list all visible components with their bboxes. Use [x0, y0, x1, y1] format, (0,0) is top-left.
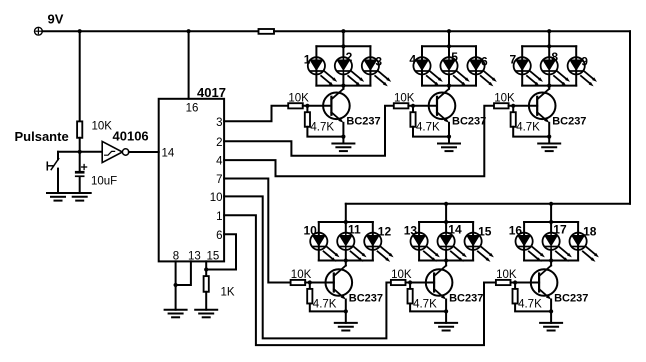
pin 6 label	[216, 230, 222, 242]
label 9V	[48, 12, 64, 27]
svg-text:10K: 10K	[92, 121, 113, 133]
resistor 10K base Q2	[394, 92, 415, 108]
resistor R1 10K	[77, 121, 112, 138]
svg-text:2: 2	[346, 50, 353, 64]
svg-text:BC237: BC237	[552, 116, 586, 128]
resistor 10K base Q4	[291, 269, 312, 285]
pin 2 label	[216, 137, 222, 149]
svg-text:40106: 40106	[113, 129, 149, 144]
transistor Q6 BC237	[531, 266, 589, 305]
svg-text:6: 6	[481, 54, 488, 68]
svg-text:10K: 10K	[494, 92, 515, 104]
wire 4.7K to emitter Q2	[413, 127, 451, 139]
junction rail / R1	[78, 29, 82, 33]
pin 16 label	[186, 102, 199, 114]
svg-text:BC237: BC237	[554, 292, 588, 304]
wire base node Q3	[509, 104, 538, 108]
ground Q5 emitter	[435, 323, 457, 331]
wire rail to upper LED group	[448, 31, 450, 46]
IC U1 4017 body	[159, 99, 224, 262]
svg-text:BC237: BC237	[349, 292, 383, 304]
wire LED group bus for LEDs 4-6	[422, 44, 476, 87]
resistor 1K reset pulldown	[204, 276, 235, 298]
svg-text:11: 11	[348, 223, 361, 237]
wire emitter Q4 to ground	[345, 300, 347, 323]
svg-text:10K: 10K	[391, 269, 412, 281]
transistor Q2 BC237	[429, 89, 487, 128]
wire 4.7K to emitter Q1	[307, 127, 345, 139]
svg-text:4.7K: 4.7K	[518, 298, 542, 310]
wire rail to R1	[79, 31, 81, 121]
resistor 4.7K base-emitter Q1	[305, 108, 335, 133]
svg-text:10K: 10K	[291, 269, 312, 281]
ground Q3 emitter	[538, 144, 560, 152]
junction lower rail / LED group	[444, 202, 448, 206]
transistor Q3 BC237	[529, 89, 587, 128]
wire input node to C1	[79, 152, 81, 171]
ground 4017 Vss	[165, 310, 187, 318]
svg-text:10K: 10K	[288, 92, 309, 104]
svg-text:5: 5	[451, 50, 458, 64]
switch S1 pushbutton	[47, 152, 58, 193]
wire pin 13 down	[176, 261, 191, 285]
wire collector Q6 to LED bus	[550, 261, 552, 266]
wire collector Q1 to LED bus	[342, 86, 344, 89]
svg-text:Pulsante: Pulsante	[15, 129, 69, 144]
pin 4 label	[216, 156, 223, 168]
svg-text:16: 16	[186, 102, 199, 114]
LED 14	[438, 223, 467, 262]
svg-text:10K: 10K	[394, 92, 415, 104]
junction rail / LED group	[447, 29, 451, 33]
wire pin 7 to driver Q4	[224, 179, 291, 283]
junction pins 8-13	[174, 283, 178, 287]
transistor Q4 BC237	[326, 266, 384, 305]
wire base node Q6	[511, 280, 540, 284]
wire base node Q1	[303, 104, 332, 108]
wire collector Q2 to LED bus	[448, 86, 450, 89]
wire lower rail to LED group	[345, 204, 347, 222]
wire pin 3 to driver Q1	[224, 106, 288, 122]
svg-text:9: 9	[581, 54, 588, 68]
wire 9V rail left segment	[42, 30, 258, 32]
wire base node Q4	[305, 280, 334, 284]
ground Q2 emitter	[438, 144, 460, 152]
wire base node Q2	[408, 104, 437, 108]
wire 4.7K to emitter Q5	[410, 304, 448, 314]
svg-text:3: 3	[375, 54, 382, 68]
LED 12	[364, 225, 393, 262]
transistor Q1 BC237	[323, 89, 381, 128]
svg-text:4.7K: 4.7K	[310, 122, 334, 134]
wire 4.7K to emitter Q3	[513, 127, 551, 139]
wire LED group bus for LEDs 1-3	[316, 44, 370, 87]
wire C1 to ground	[79, 177, 81, 193]
wire lower rail to LED group	[445, 204, 447, 222]
svg-text:4: 4	[216, 156, 223, 168]
wire lower rail to LED group	[550, 204, 552, 222]
svg-text:3: 3	[216, 117, 222, 129]
LED 7	[510, 52, 543, 86]
svg-text:2: 2	[216, 137, 222, 149]
wire LED group bus for LEDs 13-15	[419, 220, 473, 263]
transistor Q5 BC237	[426, 266, 484, 305]
ground switch	[47, 193, 69, 201]
LED 17	[543, 223, 572, 262]
svg-text:17: 17	[553, 223, 567, 237]
LED 9	[568, 54, 597, 86]
wire lower 9V rail	[346, 203, 630, 205]
LED 5	[440, 50, 469, 86]
wire rail to upper LED group	[342, 31, 344, 46]
resistor 4.7K base-emitter Q6	[513, 285, 543, 310]
pin 3 label	[216, 117, 222, 129]
resistor series in 9V rail	[259, 29, 275, 34]
wire LED group bus for LEDs 7-9	[522, 44, 576, 87]
LED 8	[541, 50, 570, 86]
wire pin 1 to driver Q6	[224, 215, 496, 345]
wire inverter output to pin 14	[129, 151, 159, 153]
svg-text:1: 1	[304, 52, 311, 66]
wire base node Q5	[406, 280, 435, 284]
svg-text:15: 15	[478, 225, 492, 239]
wire pin 15 down	[205, 261, 207, 276]
junction input node	[78, 150, 82, 154]
LED 18	[570, 225, 599, 262]
svg-text:13: 13	[404, 224, 418, 238]
svg-text:6: 6	[216, 230, 222, 242]
LED 16	[509, 224, 545, 262]
wire 4.7K to emitter Q4	[310, 304, 348, 314]
junction lower rail / LED group	[549, 202, 553, 206]
resistor 10K base Q6	[496, 269, 517, 285]
svg-text:10: 10	[210, 192, 223, 204]
pin 14 label	[162, 148, 175, 160]
label 40106	[113, 129, 149, 144]
junction rail / 4017 Vdd	[187, 29, 191, 33]
wire LED group bus for LEDs 16-18	[524, 220, 578, 263]
wire 4.7K to emitter Q6	[515, 304, 553, 314]
svg-text:BC237: BC237	[449, 292, 483, 304]
resistor 4.7K base-emitter Q2	[410, 108, 440, 133]
svg-text:4.7K: 4.7K	[516, 122, 540, 134]
label 4017	[197, 85, 226, 100]
svg-text:8: 8	[551, 50, 558, 64]
LED 6	[467, 54, 496, 86]
wire emitter Q3 to ground	[548, 123, 550, 144]
svg-text:4.7K: 4.7K	[413, 298, 437, 310]
wire right edge down to lower rail	[629, 31, 631, 204]
capacitor C1 10uF polarized	[75, 165, 117, 188]
svg-text:7: 7	[216, 174, 222, 186]
svg-text:16: 16	[509, 224, 523, 238]
wire emitter Q2 to ground	[448, 123, 450, 144]
pin 8 label	[173, 251, 179, 263]
LED 11	[337, 223, 366, 262]
pin 13 label	[188, 251, 201, 263]
wire emitter Q6 to ground	[550, 300, 552, 323]
svg-text:BC237: BC237	[346, 116, 380, 128]
LED 10	[303, 224, 339, 262]
wire pin 2 to driver Q2	[224, 106, 394, 156]
svg-text:4: 4	[409, 52, 416, 66]
LED 13	[404, 224, 440, 262]
pin 10 label	[210, 192, 223, 204]
wire 9V rail right segment	[274, 30, 630, 32]
svg-text:4.7K: 4.7K	[416, 122, 440, 134]
wire 1K to ground	[205, 292, 207, 310]
ground Q6 emitter	[540, 323, 562, 331]
wire input node to inverter	[80, 151, 103, 153]
pin 15 label	[207, 251, 220, 263]
svg-text:7: 7	[510, 52, 517, 66]
ground Q1 emitter	[332, 144, 354, 152]
svg-text:14: 14	[162, 148, 175, 160]
ground 1K	[195, 310, 217, 318]
svg-text:15: 15	[207, 251, 220, 263]
wire pin 4 to driver Q3	[224, 106, 494, 176]
ground Q4 emitter	[335, 323, 357, 331]
wire rail to pin 16	[188, 31, 190, 99]
svg-text:BC237: BC237	[452, 116, 486, 128]
resistor 4.7K base-emitter Q5	[408, 285, 438, 310]
svg-text:18: 18	[583, 225, 597, 239]
ground C1	[69, 193, 91, 201]
wire collector Q5 to LED bus	[445, 261, 447, 266]
svg-text:1: 1	[216, 211, 222, 223]
junction pin 15 / pin 6	[204, 267, 208, 271]
svg-text:12: 12	[378, 225, 392, 239]
LED 15	[465, 225, 494, 262]
wire collector Q3 to LED bus	[548, 86, 550, 89]
wire pin 8 down	[175, 261, 177, 285]
wire R1 to input node	[79, 138, 81, 152]
LED 4	[409, 52, 442, 86]
pin 1 label	[216, 211, 222, 223]
LED 1	[304, 52, 337, 86]
label Pulsante	[15, 129, 69, 144]
junction rail / LED group	[341, 29, 345, 33]
svg-text:14: 14	[448, 223, 462, 237]
wire collector Q4 to LED bus	[345, 261, 347, 266]
inverter U2 40106 schmitt	[102, 141, 129, 162]
wire emitter Q5 to ground	[445, 300, 447, 323]
junction rail / LED group	[547, 29, 551, 33]
wire rail to upper LED group	[548, 31, 550, 46]
wire pin 10 to driver Q5	[224, 196, 391, 338]
resistor 10K base Q1	[288, 92, 309, 108]
terminal 9V positive	[35, 27, 43, 35]
wire emitter Q1 to ground	[342, 123, 344, 144]
svg-text:4017: 4017	[197, 85, 226, 100]
LED 2	[335, 50, 364, 86]
resistor 4.7K base-emitter Q3	[511, 108, 541, 133]
pin 7 label	[216, 174, 222, 186]
LED 3	[362, 54, 391, 86]
resistor 10K base Q3	[494, 92, 515, 108]
svg-text:1K: 1K	[221, 287, 235, 299]
svg-text:10uF: 10uF	[91, 176, 117, 188]
svg-text:10K: 10K	[496, 269, 517, 281]
wire input node to switch	[58, 151, 80, 153]
wire pin 6 to pin 15 node	[206, 234, 236, 269]
resistor 4.7K base-emitter Q4	[307, 285, 337, 310]
svg-text:10: 10	[303, 224, 317, 238]
wire pins 8-13 to ground	[175, 285, 177, 310]
resistor 10K base Q5	[391, 269, 412, 285]
wire LED group bus for LEDs 10-12	[319, 220, 373, 263]
svg-text:4.7K: 4.7K	[313, 298, 337, 310]
svg-text:9V: 9V	[48, 12, 64, 27]
